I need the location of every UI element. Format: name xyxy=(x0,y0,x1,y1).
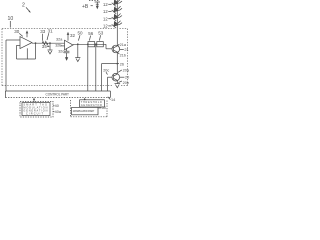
+B supply label xyxy=(82,4,89,10)
tap wire A to control part xyxy=(87,44,89,91)
manipulation box text xyxy=(73,110,95,113)
connector arrow control part to box 40 xyxy=(33,98,35,102)
label 53 xyxy=(98,31,104,36)
capacitor 32c stem xyxy=(66,48,68,51)
label 32c xyxy=(58,50,64,54)
svg-text:GENERATOR: GENERATOR xyxy=(81,104,102,107)
label 31 (node) xyxy=(48,29,54,34)
svg-text:56: 56 xyxy=(88,31,94,36)
svg-text:30: 30 xyxy=(14,29,20,34)
ground symbol under Q20 xyxy=(115,84,121,88)
dashed box 10 xyxy=(2,29,128,86)
svg-text:53: 53 xyxy=(98,31,104,36)
op-amp U30 power arrow xyxy=(26,30,29,37)
LED D4 (12) xyxy=(112,21,119,28)
dashed group box 50 xyxy=(71,100,107,117)
op-amp U32 power arrow xyxy=(67,32,70,41)
leader for 20c xyxy=(106,72,108,74)
tap wire B to control part xyxy=(95,44,97,91)
capacitor 32c xyxy=(64,51,70,60)
LED D1 (12) xyxy=(112,0,119,6)
label 21a xyxy=(120,43,127,47)
junction dot node 34 xyxy=(49,42,51,44)
label 34 xyxy=(42,44,48,49)
label 33 (zigzag element) xyxy=(40,29,46,34)
ground under Q20 stem xyxy=(116,80,118,83)
threshold box text xyxy=(81,101,102,107)
label 12 (LED D4) xyxy=(103,24,108,29)
label 20 xyxy=(125,76,129,80)
label 50 xyxy=(102,106,106,110)
+B leader dash xyxy=(91,5,93,7)
label 50 (node) xyxy=(78,30,84,35)
label 32b (input) xyxy=(55,43,61,47)
wire jog to Q21 base xyxy=(106,44,112,49)
op-amp U32 lower input stub xyxy=(60,45,64,47)
op-amp U32 output wire xyxy=(73,43,106,45)
svg-text:21b: 21b xyxy=(120,53,126,57)
op-amp U30 input wire (+) xyxy=(6,40,20,91)
ground symbol (op32 output) xyxy=(75,58,80,62)
svg-text:2: 2 xyxy=(22,3,25,9)
svg-text:40a: 40a xyxy=(55,110,62,114)
svg-text:20: 20 xyxy=(125,76,129,80)
label 12 (LED D1) xyxy=(103,2,108,7)
svg-text:33: 33 xyxy=(40,29,46,34)
svg-text:20a: 20a xyxy=(123,68,130,72)
label 20c (base) xyxy=(103,69,109,73)
svg-text:50: 50 xyxy=(78,30,84,35)
label 2 (assembly reference) xyxy=(22,3,25,9)
svg-text:14: 14 xyxy=(111,98,115,102)
zigzag element 33 xyxy=(42,41,48,44)
dashed group box 40 xyxy=(20,101,53,117)
connector arrow control part to box 50 xyxy=(84,98,86,101)
label 10 (dashed enclosure) xyxy=(8,16,14,22)
ground 34 symbol xyxy=(47,50,52,54)
svg-text:12: 12 xyxy=(103,16,108,21)
leader arrow for label 2 xyxy=(26,7,31,12)
junction dot feedback xyxy=(35,42,37,44)
label 12 (LED D3) xyxy=(103,16,108,21)
label 40 xyxy=(55,104,59,108)
svg-text:32c: 32c xyxy=(58,50,64,54)
leader arrow for 34 xyxy=(47,46,50,48)
label 14 xyxy=(111,98,115,102)
leader for 53 xyxy=(99,35,100,40)
svg-text:32: 32 xyxy=(70,33,76,38)
box threshold generator xyxy=(80,100,105,107)
transistor Q20 xyxy=(112,73,120,81)
svg-text:26: 26 xyxy=(120,62,124,66)
junction dot output U32 xyxy=(77,43,79,45)
label 21 xyxy=(124,48,128,52)
emitter wire Q21 to Q20 xyxy=(116,52,118,74)
control part box xyxy=(5,91,110,98)
svg-text:50: 50 xyxy=(102,106,106,110)
svg-text:MANIPULATION PART: MANIPULATION PART xyxy=(73,110,95,113)
svg-text:12: 12 xyxy=(103,9,108,14)
junction dot tap B xyxy=(95,43,97,45)
ground 34 stem xyxy=(49,43,51,50)
svg-text:34: 34 xyxy=(42,44,48,49)
op-amp U30 xyxy=(20,37,32,49)
svg-text:10: 10 xyxy=(8,16,14,22)
label 40a xyxy=(55,110,62,114)
leader for label 30 xyxy=(19,33,23,36)
label 20a xyxy=(123,68,130,72)
svg-text:+B: +B xyxy=(82,4,89,10)
svg-text:CIRCUIT: CIRCUIT xyxy=(26,112,43,115)
+B terminal symbol xyxy=(95,2,100,9)
leader for 31 xyxy=(47,33,49,40)
junction dot tap A xyxy=(87,43,89,45)
box 40 (modulation part) xyxy=(22,103,50,116)
leader for label 10 xyxy=(9,21,11,28)
resistor 53 xyxy=(97,42,104,47)
control part text xyxy=(46,92,70,96)
wire op-amp U30 inverting branch xyxy=(26,48,28,59)
label 56 xyxy=(88,31,94,36)
label 32 xyxy=(70,33,76,38)
label 20b xyxy=(123,81,129,85)
svg-text:12: 12 xyxy=(103,24,108,29)
svg-text:40: 40 xyxy=(55,104,59,108)
base wire Q20 to control part xyxy=(108,77,113,91)
junction dot node 26 xyxy=(116,63,118,65)
svg-text:21a: 21a xyxy=(120,43,127,47)
svg-text:21: 21 xyxy=(124,48,128,52)
transistor Q21 xyxy=(112,45,120,53)
svg-text:32a: 32a xyxy=(56,37,63,41)
label 21b xyxy=(120,53,126,57)
feedback loop wire U30 xyxy=(17,43,36,59)
LED D2 (12) xyxy=(112,7,119,14)
svg-text:CONTROL PART: CONTROL PART xyxy=(46,92,70,96)
short dashed segment top (lamp unit boundary) xyxy=(89,0,99,2)
ground (op32 output) stem xyxy=(77,44,79,57)
LED D3 (12) xyxy=(112,14,119,21)
leader for 33 xyxy=(41,34,43,41)
node 26 wire to control part xyxy=(102,64,118,91)
svg-text:31: 31 xyxy=(48,29,54,34)
svg-text:32b: 32b xyxy=(55,43,61,47)
svg-text:12: 12 xyxy=(103,2,108,7)
label 30 (op-amp) xyxy=(14,29,20,34)
box manipulation part xyxy=(72,107,98,114)
LED chain wire xyxy=(116,0,118,46)
svg-text:20c: 20c xyxy=(103,69,109,73)
box 40 text xyxy=(23,103,47,115)
leader for 50 xyxy=(78,35,80,40)
label 32a (input) xyxy=(56,37,63,41)
leader for 56 xyxy=(89,36,90,41)
resistor 56 xyxy=(88,42,95,47)
op-amp U30 output wire xyxy=(32,42,65,44)
label 26 xyxy=(120,62,124,66)
label 12 (LED D2) xyxy=(103,9,108,14)
op-amp U32 xyxy=(65,40,74,50)
svg-text:20b: 20b xyxy=(123,81,129,85)
